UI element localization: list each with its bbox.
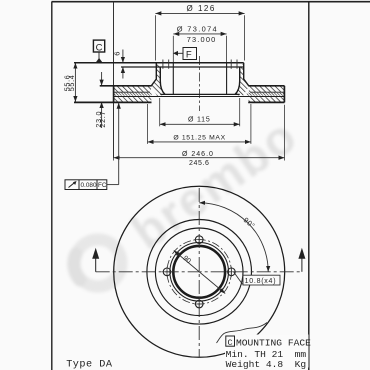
- svg-text:6: 6: [113, 52, 122, 56]
- mounting face note block: [225, 335, 311, 370]
- dimension Ø246.0 / 245.6: [114, 104, 285, 167]
- hat right wall: [235, 63, 249, 97]
- runout feature control frame 0.080 FC: [65, 103, 119, 190]
- dimension Ø115: [160, 98, 240, 126]
- svg-text:F: F: [186, 50, 192, 61]
- svg-text:Type DA: Type DA: [66, 360, 113, 370]
- dimension Ø151.25 MAX: [148, 104, 251, 144]
- circle Ø126: [155, 228, 243, 316]
- section face top line with datum/dim extension: [74, 62, 244, 64]
- bolt circle diameter dimension 90: [174, 251, 225, 294]
- section face second line: [121, 66, 244, 68]
- svg-text:C: C: [228, 338, 233, 348]
- svg-text:Ø 246.0: Ø 246.0: [182, 151, 214, 158]
- hat left wall: [151, 63, 165, 97]
- svg-text:MOUNTING FACE: MOUNTING FACE: [236, 337, 311, 348]
- bolt pitch circle dashed: [167, 240, 231, 304]
- left friction ring block: [74, 86, 152, 103]
- svg-text:C: C: [96, 43, 103, 54]
- svg-text:22.7: 22.7: [98, 111, 107, 128]
- hub circle: [170, 242, 229, 301]
- bore circle Ø73: [173, 246, 225, 298]
- dimension 23.0/22.7: [94, 72, 113, 128]
- watermark brembo text: [123, 109, 307, 260]
- datum F: [173, 48, 197, 61]
- bolt hole right: [228, 268, 236, 276]
- svg-text:FC: FC: [98, 182, 107, 189]
- datum C: [93, 40, 104, 62]
- hat interior bottom lines: [160, 93, 239, 95]
- vertical centerline: [198, 188, 200, 358]
- dimension 6: [113, 50, 123, 79]
- frame right divider: [308, 2, 310, 370]
- svg-text:Ø 151.25 MAX: Ø 151.25 MAX: [173, 134, 225, 141]
- svg-text:Ø 126: Ø 126: [187, 4, 216, 13]
- svg-text:245.6: 245.6: [189, 160, 210, 167]
- svg-text:Ø 73.074: Ø 73.074: [177, 24, 218, 33]
- dimension Ø126: [155, 4, 244, 61]
- 90 degree arc dimension: [199, 203, 268, 272]
- bore Ø73 vertical lines: [172, 63, 174, 95]
- svg-text:55.4: 55.4: [67, 75, 76, 92]
- svg-text:Ø 115: Ø 115: [188, 117, 211, 124]
- svg-text:10.8(x4): 10.8(x4): [245, 278, 277, 285]
- svg-text:Weight 4.8 Kg: Weight 4.8 Kg: [226, 359, 307, 370]
- bolt hole top: [195, 236, 203, 244]
- svg-text:73.000: 73.000: [187, 35, 217, 44]
- right friction ring block: [247, 86, 285, 103]
- label 10.8(x4) with leader: [233, 272, 280, 286]
- frame inner vertical line: [113, 2, 115, 158]
- dimension Ø73.074/73.000: [173, 24, 226, 62]
- outer circle Ø246: [114, 186, 285, 357]
- frame top border: [52, 1, 370, 3]
- mounting face leader curve: [217, 323, 268, 344]
- watermark logo: [74, 240, 122, 287]
- section arrow right: [298, 248, 305, 272]
- frame left border: [51, 2, 53, 370]
- bolt hole bottom: [195, 300, 203, 308]
- section arrow left: [92, 248, 99, 272]
- dimension 55.6/55.4: [62, 63, 76, 102]
- horizontal centerline: [96, 271, 302, 273]
- section centerline: [199, 56, 201, 111]
- bolt hole hidden ticks on hub face: [163, 60, 237, 69]
- bolt hole cross ticks: [162, 235, 236, 309]
- bolt hole left: [163, 268, 171, 276]
- circle Ø151.25: [147, 219, 252, 324]
- svg-text:0.080: 0.080: [81, 182, 97, 189]
